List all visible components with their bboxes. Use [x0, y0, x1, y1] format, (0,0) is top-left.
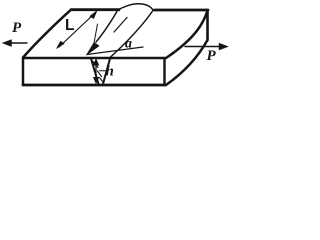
h dimension vertical double arrow [95, 61, 97, 81]
h label leader dash [100, 70, 107, 72]
svg-text:P: P [207, 48, 217, 64]
weld seam left border steep lower segment [94, 24, 98, 43]
weld seam inner hatch stroke [114, 18, 127, 33]
L dimension line [59, 13, 95, 47]
plate back right vertical edge [206, 11, 209, 41]
plate front top edge [24, 57, 165, 60]
plate top face left oblique edge [23, 10, 71, 58]
force P arrow right [185, 46, 220, 48]
L dimension lower arrowhead [57, 41, 65, 48]
weld seam right border line [110, 11, 153, 58]
plate top face back edge (left of weld bulge) [71, 8, 119, 11]
svg-text:L: L [65, 17, 74, 34]
plate front face right edge [163, 58, 165, 85]
L dimension upper arrowhead [90, 11, 97, 19]
weld bead bulge on back edge [118, 4, 153, 10]
V-groove weld cross-section right line [103, 59, 110, 85]
svg-text:a: a [125, 37, 132, 52]
alpha reference line [87, 47, 143, 55]
plate front face bottom edge [23, 84, 165, 87]
weld seam left border arrowhead at alpha vertex [87, 43, 100, 56]
force P arrow left [7, 42, 27, 44]
svg-text:P: P [12, 20, 22, 36]
svg-text:h: h [106, 64, 114, 80]
V-groove weld cross-section left line [91, 59, 99, 85]
plate front face left edge [22, 58, 25, 85]
plate top face back edge (right of weld bulge) [155, 9, 209, 12]
plate top face right oblique edge [166, 11, 208, 59]
V-groove hatch strokes [93, 62, 98, 68]
plate side face bottom oblique edge [166, 40, 208, 85]
weld seam left border line [96, 10, 118, 42]
